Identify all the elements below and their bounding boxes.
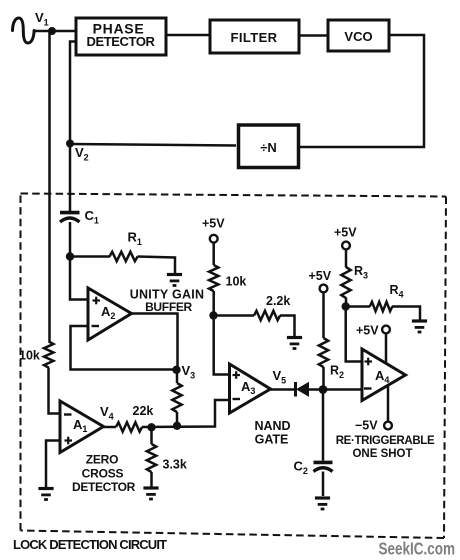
svg-text:NAND: NAND (254, 419, 290, 433)
resistor R4 (370, 302, 392, 311)
svg-text:+5V: +5V (202, 217, 225, 231)
svg-text:C1: C1 (85, 208, 99, 226)
svg-text:V5: V5 (273, 368, 287, 386)
wire diode to A4 inverting input (309, 388, 363, 391)
ground below A1 (38, 489, 53, 500)
svg-text:+5V: +5V (334, 226, 357, 240)
svg-text:ONE SHOT: ONE SHOT (352, 448, 412, 460)
svg-text:LOCK DETECTION CIRCUIT: LOCK DETECTION CIRCUIT (13, 537, 167, 552)
svg-text:V3: V3 (182, 363, 196, 381)
op-amp A1 (60, 401, 104, 453)
op-amp A2 (88, 288, 132, 340)
wire V2 to divider (70, 144, 236, 146)
resistor R2 (319, 293, 328, 386)
wire phase detector to filter (166, 34, 210, 37)
op-amp A4 (362, 349, 406, 401)
wire A3 output to diode (271, 388, 296, 391)
svg-text:DETECTOR: DETECTOR (72, 480, 136, 494)
resistor 2.2k (254, 311, 280, 320)
VCO box (328, 20, 389, 51)
capacitor C1 (60, 213, 80, 222)
svg-text:10k: 10k (19, 349, 40, 363)
svg-text:+5V: +5V (356, 324, 379, 338)
ground below 3.3k (143, 488, 158, 499)
wire junction to R4 (346, 305, 370, 308)
wire C1 to node A (69, 222, 72, 257)
resistor R1 (110, 252, 138, 261)
filter box (210, 20, 299, 53)
source sine symbol (13, 18, 35, 43)
svg-text:RE·TRIGGERABLE: RE·TRIGGERABLE (336, 435, 435, 447)
wire A1 output to 22k (104, 426, 117, 429)
capacitor C2 (314, 390, 333, 497)
resistor 3.3k (147, 427, 156, 486)
wire +5V to A4 top (385, 334, 388, 364)
wire filter to VCO (299, 34, 328, 37)
wire to 2.2k (214, 314, 255, 317)
wire node A to R1 (70, 255, 110, 258)
wire phase detector second input down (70, 42, 76, 212)
wire source to phase detector (33, 30, 76, 33)
wire A4 bottom to -5V (387, 385, 390, 421)
ground below C2 (315, 498, 330, 509)
node V3 junction dot (172, 366, 180, 374)
diode D1 (296, 382, 309, 397)
svg-text:22k: 22k (133, 404, 154, 418)
junction dot R3/R4 (342, 302, 350, 310)
wire A1 noninverting input to ground (46, 441, 60, 488)
resistor 22k (116, 422, 142, 431)
wire R1 to ground (138, 257, 176, 274)
svg-text:10k: 10k (226, 275, 247, 289)
resistor R3 (341, 250, 350, 307)
dashed box border (21, 194, 447, 539)
wire 22k to NAND gate input rail (142, 400, 230, 427)
svg-text:V2: V2 (75, 145, 89, 163)
junction dot V3 resistor bottom (173, 422, 181, 430)
divide-by-N box (239, 125, 299, 168)
svg-text:BUFFER: BUFFER (145, 300, 192, 314)
junction dot 2.2k tap (209, 311, 217, 319)
op-amp A3 NAND (230, 364, 271, 413)
svg-text:CROSS: CROSS (82, 467, 124, 481)
svg-text:V1: V1 (35, 10, 49, 28)
resistor 10k (left, from V1) (44, 341, 53, 367)
svg-text:2.2k: 2.2k (266, 294, 290, 308)
node V2 junction dot (66, 140, 74, 148)
svg-text:SeekIC.com: SeekIC.com (379, 540, 455, 559)
svg-text:GATE: GATE (255, 433, 289, 447)
junction dot 3.3k tap (147, 423, 155, 431)
svg-text:V4: V4 (100, 404, 114, 422)
ground below R1 (167, 275, 182, 286)
resistor 10k (mid) (209, 265, 218, 291)
wire R4 to ground (392, 307, 420, 320)
wire 2.2k to ground (280, 316, 295, 337)
svg-text:R2: R2 (330, 364, 344, 381)
svg-text:ZERO: ZERO (86, 453, 119, 467)
svg-text:3.3k: 3.3k (163, 458, 187, 472)
svg-text:+5V: +5V (309, 269, 332, 283)
wire 10k down to A3 noninverting input (214, 291, 230, 375)
resistor below V3 (unlabeled) (172, 370, 181, 427)
svg-text:C2: C2 (294, 459, 308, 477)
wire A2 output down to V3 (132, 314, 178, 371)
ground right of R4 (412, 321, 427, 332)
wire node A to A2 noninverting input (70, 257, 88, 300)
svg-text:−5V: −5V (355, 419, 378, 433)
svg-text:R1: R1 (128, 230, 142, 248)
ground below 2.2k (287, 338, 302, 349)
phase detector box U1 (76, 18, 166, 55)
svg-text:R4: R4 (390, 283, 404, 300)
svg-text:FILTER: FILTER (231, 30, 278, 45)
svg-text:VCO: VCO (344, 29, 372, 44)
svg-text:DETECTOR: DETECTOR (86, 34, 155, 49)
wire R3/R4 node to A4 noninverting input (346, 307, 362, 362)
node V1 junction dot (48, 27, 56, 35)
junction dot R2/C2 node (319, 385, 328, 394)
wire A2 feedback (inverting input to V3) (71, 326, 177, 370)
svg-text:÷N: ÷N (260, 140, 277, 155)
svg-text:R3: R3 (354, 264, 368, 281)
wire 10k to A1 inverting input (49, 368, 61, 414)
wire terminal to 10k (212, 243, 215, 265)
node A junction dot (66, 252, 74, 260)
wire VCO output to divider feedback (300, 35, 424, 147)
wire V1 vertical down to 10k (48, 31, 51, 342)
